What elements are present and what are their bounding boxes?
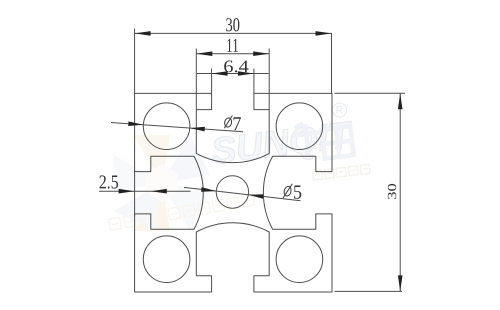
dimension 30 right: [335, 93, 406, 291]
watermark chinese char 2: [321, 126, 353, 158]
value label diameter 5: [283, 184, 292, 198]
hole circle TR (d7): [276, 103, 323, 150]
dimension 6.4: [197, 69, 269, 94]
watermark (R) symbol: [333, 103, 347, 117]
dimension 11: [196, 49, 269, 110]
value label 30 (right height, rotated): [388, 184, 396, 199]
value label 2.5 (lip depth): [100, 175, 119, 188]
value label 11 (slot cavity width): [227, 39, 237, 52]
leader d5: [184, 187, 301, 200]
center hole (d5): [216, 176, 248, 208]
value label 30 (top width): [226, 18, 239, 31]
watermark SUNQIT text: [209, 114, 356, 172]
dimension 2.5: [99, 170, 191, 216]
watermark logo star: [114, 135, 210, 231]
leader d7: [111, 123, 243, 132]
value label 6.4 (slot opening width): [224, 61, 248, 73]
watermark small tagline right: [312, 164, 370, 180]
hole circle BR (d7): [276, 236, 323, 283]
watermark small tagline diagonal left: [109, 194, 255, 230]
hole circle BL (d7): [143, 236, 190, 283]
profile outline (30x30 extrusion cross-section with 4 T-slots): [135, 93, 332, 292]
value label diameter 7: [224, 116, 233, 129]
hole circle TL (d7): [143, 103, 190, 150]
watermark chinese char 1: [291, 121, 323, 158]
dimension 30 top: [135, 29, 332, 94]
